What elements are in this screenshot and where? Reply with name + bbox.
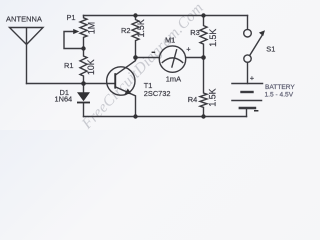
battery plate short [242,91,253,93]
junction node meter/R3/R4 [201,55,206,60]
wire R2 to meter [136,57,160,59]
svg-text:ANTENNA: ANTENNA [6,14,42,23]
junction node P1 wiper [81,46,85,50]
D1 cathode bar [77,102,90,104]
junction node R4 bottom rail [201,114,205,118]
svg-text:R2: R2 [121,26,130,35]
meter M1 [159,46,185,72]
svg-text:S1: S1 [266,45,275,54]
svg-text:1.5K: 1.5K [208,29,218,47]
svg-text:1M: 1M [86,22,96,34]
wire top rail [84,15,248,17]
potentiometer P1 [80,16,87,49]
svg-text:1.5K: 1.5K [208,88,218,106]
switch S1 top contact [244,29,252,37]
antenna [10,28,44,84]
meter needle [172,50,177,67]
S1 lever arrowhead [259,30,265,36]
wire bottom rail [84,116,247,118]
svg-text:+: + [250,73,254,82]
meter scale arc [162,58,182,63]
D1 triangle [77,92,90,101]
svg-text:R1: R1 [64,61,73,70]
battery plate long [232,100,262,102]
resistor R2 [132,16,139,58]
T1 collector [115,58,135,76]
switch S1 bottom contact [244,55,251,62]
svg-text:1.5K: 1.5K [136,19,146,37]
wire battery to bottom rail [246,108,248,117]
svg-text:P1: P1 [67,13,76,22]
T1 emitter arrowhead [125,89,132,95]
resistor R1 [80,49,87,84]
junction node emitter bottom rail [133,114,137,118]
wiper of P1 [64,32,84,49]
T1 emitter [115,87,135,117]
resistor R3 [200,16,207,58]
switch S1 wire from rail [247,16,249,30]
battery plate short bottom [240,107,255,109]
svg-text:1.5 - 4.5V: 1.5 - 4.5V [265,92,294,99]
svg-text:10K: 10K [86,59,96,75]
wire S1 to battery [247,62,249,83]
P1 wiper arrowhead [73,29,79,34]
svg-text:2SC732: 2SC732 [144,89,171,98]
svg-text:1N64: 1N64 [55,95,73,104]
resistor R4 [200,58,207,117]
T1 base bar [114,73,116,88]
junction node collector/meter [133,55,138,60]
diode D1 [83,84,85,117]
svg-text:R4: R4 [188,95,197,104]
junction node R2 top rail [133,13,137,17]
junction node antenna/R1/D1/base [81,81,86,86]
wire meter to R3/R4 node [186,57,204,59]
svg-text:BATTERY: BATTERY [265,84,295,91]
transistor T1 [107,67,135,95]
wire antenna to base [27,83,116,85]
junction node R3 top rail [201,13,205,17]
battery plate long top [232,83,263,85]
svg-text:1mA: 1mA [166,74,181,83]
switch S1 lever [250,34,263,55]
svg-text:+: + [186,44,190,53]
svg-text:M1: M1 [165,35,175,44]
svg-text:R3: R3 [190,28,199,37]
battery minus sign [254,110,258,112]
meter minus sign [152,52,156,53]
